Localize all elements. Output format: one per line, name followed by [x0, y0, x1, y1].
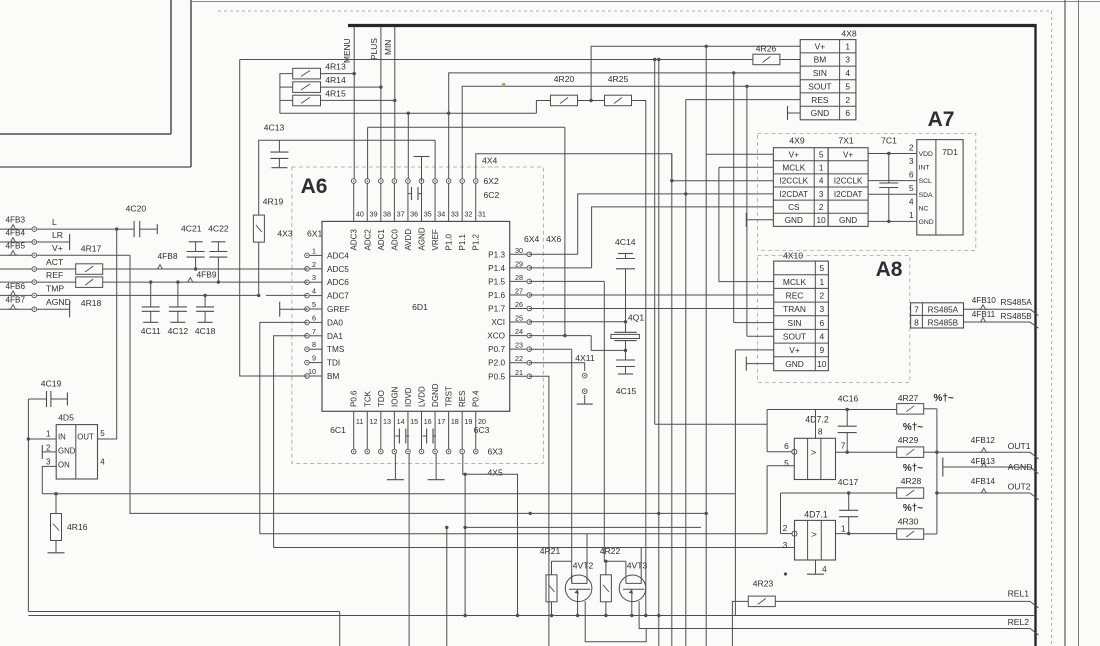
svg-text:AGND: AGND [1008, 462, 1033, 472]
4X10 row divider [774, 274, 829, 276]
wire: 4C20 right stub [140, 228, 158, 230]
svg-text:P0.7: P0.7 [488, 345, 505, 354]
svg-text:4: 4 [845, 68, 850, 78]
AGND riser tick [421, 157, 423, 182]
svg-text:4C12: 4C12 [168, 326, 189, 336]
wire: 4R21 bottom stem [551, 602, 553, 616]
open-end tick on GREF stub [279, 302, 281, 317]
open-end tick above 4C21 [189, 241, 203, 243]
svg-text:P1.4: P1.4 [488, 264, 505, 273]
svg-text:8: 8 [312, 340, 316, 349]
resistor 4R16 [51, 514, 62, 541]
wire: 4D5 pin 5 (OUT) up to L row [98, 229, 117, 439]
4X8 row divider 1 [800, 52, 856, 54]
junction: 4C17 / 4R28 row [847, 491, 850, 494]
svg-text:4C17: 4C17 [838, 477, 859, 487]
wire: 4R13 right to MENU [321, 73, 355, 75]
junction: output row / 4C17 [847, 532, 850, 535]
junction: riser 658.8 / bottom bus [657, 614, 660, 617]
junction: BM rail / riser 658.8 [657, 58, 660, 61]
svg-text:IOVD: IOVD [404, 387, 413, 407]
IC pin 39 (ADC2) top [366, 183, 368, 221]
wire: 4C13 top stem [278, 140, 280, 152]
open-end tick on 4X9 GND [745, 213, 747, 227]
4X9/7X1 row divider [773, 160, 868, 162]
wire: P1.5 row to riser [529, 280, 604, 282]
wire: 4R14 right to PLUS [321, 86, 381, 88]
junction: 4C11 / row [149, 280, 152, 283]
svg-text:4R27: 4R27 [898, 393, 919, 403]
IC pin 35 (AGND) top [421, 183, 423, 221]
wire: V+ row to corner [37, 254, 130, 256]
svg-text:26: 26 [515, 300, 523, 309]
junction: AVDD riser / rail [407, 112, 410, 115]
terminal pin, row LR [32, 240, 37, 245]
svg-text:LVDD: LVDD [418, 386, 427, 407]
resistor 4R20 [551, 95, 578, 106]
wire: 4R25 right then long down [632, 101, 646, 616]
IC pin 27 (P1.6) right [510, 294, 527, 296]
svg-text:ADC7: ADC7 [327, 292, 349, 301]
wire: gate lead into 4VT3 [625, 561, 627, 574]
svg-text:4D7.2: 4D7.2 [805, 415, 829, 425]
open-end tick below 4R16 [48, 552, 65, 554]
IC pin 38 (ADC1) top [380, 183, 382, 221]
thick module border right [1034, 24, 1036, 646]
junction: XCI row / crystal vertical [624, 320, 627, 323]
wire: PLUS line down to pin 38 [380, 27, 382, 179]
svg-text:4D7.1: 4D7.1 [804, 510, 828, 520]
svg-text:2: 2 [819, 203, 824, 212]
frame: inner corner of upper-left block (vertical) [170, 0, 172, 134]
wire: riser x=564.9 (ADC2 rail to XCO) [564, 127, 566, 335]
svg-text:12: 12 [369, 417, 377, 426]
svg-text:5: 5 [845, 82, 850, 92]
svg-text:DGND: DGND [431, 383, 440, 407]
inversion bubble 4D7.1 pin 2 [792, 531, 797, 536]
svg-text:DA1: DA1 [327, 332, 343, 341]
4X10 row divider [774, 328, 829, 330]
open-end tick below 4D7.1 pin 4 [807, 573, 824, 575]
wire: ACT row to 4R17 [37, 268, 76, 270]
wire: left input row V+ [0, 254, 32, 256]
crystal 4Q1 [614, 331, 636, 333]
IC pin 8 (TMS) left [309, 348, 322, 350]
wire: riser x=654.7 from BM rail to y=424.2 [654, 60, 656, 425]
wire: 4C11 top stem [150, 282, 152, 307]
wire: P0.5 (pin 21) right then down to sheet edge [529, 376, 549, 646]
svg-text:6X1: 6X1 [307, 229, 323, 239]
svg-text:%†~: %†~ [903, 463, 923, 474]
module A8 dashed boundary [758, 256, 910, 383]
svg-text:4C22: 4C22 [208, 224, 229, 234]
svg-text:2: 2 [819, 291, 824, 301]
terminal pin, row L [32, 227, 37, 232]
IC 6D1 body [322, 221, 510, 411]
wire: RS485B out to border [964, 322, 1039, 328]
svg-text:AGND: AGND [418, 227, 427, 250]
svg-text:GND: GND [919, 219, 934, 226]
svg-text:TCK: TCK [363, 390, 372, 407]
svg-text:4R14: 4R14 [325, 75, 346, 85]
svg-text:P0.5: P0.5 [488, 372, 505, 381]
svg-text:4FB8: 4FB8 [158, 251, 178, 261]
svg-text:BM: BM [814, 55, 827, 65]
wire: OUT2 row to border [937, 493, 1039, 500]
svg-text:7: 7 [841, 441, 846, 451]
resistor 4R26 [753, 54, 780, 64]
IC pin 28 (P1.5) right [510, 280, 527, 282]
svg-text:27: 27 [515, 286, 523, 295]
IC pin 33 (P1.0) top [448, 183, 450, 221]
wire: left input row ACT [0, 268, 32, 270]
IC pin 10 (BM) left [309, 375, 322, 377]
junction: 4X8 V+ row / riser 706 [705, 45, 708, 48]
junction: riser465 / bus 527.4 [463, 526, 466, 529]
wire: 4C22 top stem [217, 242, 219, 252]
svg-text:4X11: 4X11 [575, 353, 595, 363]
junction: BM rail / riser 654.7 [653, 58, 656, 61]
svg-text:4R25: 4R25 [608, 74, 629, 84]
wire: gate row to 4VT3 [604, 560, 626, 562]
wire: P1.3 row to riser [529, 253, 577, 255]
wire: left input row LR [0, 241, 32, 243]
svg-text:ADC1: ADC1 [377, 229, 386, 251]
svg-text:40: 40 [356, 210, 364, 219]
IC pin 15 (IOVD) bottom [407, 411, 409, 449]
svg-text:2: 2 [312, 260, 316, 269]
wire: AGND row stub [37, 308, 70, 310]
wire: BM (pin 10) left and up to BM rail [240, 60, 307, 377]
svg-text:SOUT: SOUT [808, 82, 831, 92]
svg-text:39: 39 [369, 210, 377, 219]
wire: 7X1 I2CDAT to 7D1 SDA [868, 193, 917, 195]
svg-text:TRST: TRST [445, 386, 454, 407]
wire: 4R13 left to common vertical [280, 74, 293, 114]
svg-text:OUT1: OUT1 [1008, 441, 1031, 451]
svg-text:4FB5: 4FB5 [6, 242, 26, 251]
svg-text:%†~: %†~ [903, 503, 923, 514]
svg-text:LR: LR [52, 230, 63, 240]
wire: AGND row to border [943, 467, 1039, 474]
svg-text:5: 5 [819, 263, 824, 273]
svg-text:XCO: XCO [487, 332, 505, 341]
svg-text:9: 9 [819, 345, 824, 355]
svg-text:MCLK: MCLK [782, 164, 805, 173]
junction: 4R21 / bottom bus [550, 614, 553, 617]
wire: riser x=671.8 (I2CCLK tap) down to sheet edge [671, 154, 673, 646]
wire: 4C19 right stub [51, 398, 68, 400]
bus wire: DA0 y=533.7 to 4D7.2 pin 5 riser [260, 533, 767, 535]
frame: outer corner of upper-left block (horizontal) [0, 166, 191, 168]
svg-text:23: 23 [515, 341, 523, 350]
svg-text:V+: V+ [789, 345, 800, 355]
wire: 4R15 right to MIN [321, 99, 395, 101]
svg-text:>: > [811, 448, 817, 459]
wire: bus 611.5 drop to sheet edge [339, 612, 341, 646]
wire: 4R27 right [923, 408, 937, 410]
junction: left vertical / 4D5 pin1 wire [27, 437, 30, 440]
wire: left input row TMP [0, 294, 32, 296]
svg-text:RS485B: RS485B [928, 318, 959, 327]
wire: 4R14 left to common vertical [280, 86, 293, 88]
wire: to 4C19 left plate [28, 398, 46, 400]
4X10 row divider [774, 301, 829, 303]
IC pin 4 (ADC7) left [309, 295, 322, 297]
junction: 4R14 / PLUS [379, 85, 382, 88]
4X10 row divider [774, 342, 829, 344]
IC pin 32 (P1.1) top [461, 183, 463, 221]
svg-text:16: 16 [424, 417, 432, 426]
svg-text:SIN: SIN [813, 68, 827, 78]
IC pin 40 (ADC3) top [353, 183, 355, 221]
junction: rail / 4C16 [846, 408, 849, 411]
IC pin 24 (XCO) right [510, 335, 527, 337]
svg-text:34: 34 [437, 210, 445, 219]
junction: SIN row / riser 733.7 [732, 71, 735, 74]
bus wire y=611.5 [28, 611, 339, 613]
junction: SOUT row / riser 746.9 [745, 85, 748, 88]
IC pin 11 (P0.6) bottom [353, 411, 355, 449]
svg-text:INT: INT [919, 165, 930, 172]
svg-text:P1.1: P1.1 [458, 233, 467, 250]
open-end tick right of 4C19 [66, 393, 68, 406]
svg-text:4VT3: 4VT3 [627, 561, 648, 571]
wire: 4D7.2 pin 7 output to 4R29 [836, 451, 898, 453]
IC pin 14 (IOGN) bottom [393, 411, 395, 449]
wire: 4C18 bottom stem [204, 311, 206, 322]
capacitor between IOGN and IOVD [398, 429, 400, 444]
wire: 4C17 top stem [848, 493, 850, 510]
capacitor 4C18 [196, 306, 214, 308]
svg-text:TMP: TMP [46, 283, 64, 293]
svg-text:7X1: 7X1 [838, 135, 854, 145]
RS485 terminal block [911, 303, 964, 328]
wire: TMP row continues to chip pin 4 (ADC7) [266, 294, 307, 296]
svg-text:A7: A7 [928, 108, 955, 131]
terminal pin, row REF [32, 280, 37, 285]
capacitor 4C14 [616, 258, 635, 260]
wire: REL1 row to border [775, 601, 1038, 608]
svg-text:REF: REF [46, 270, 63, 280]
svg-text:GND: GND [58, 446, 76, 455]
junction: bus 493.7 / 4R16 [54, 492, 57, 495]
wire: 4R16 top stem [55, 494, 57, 514]
svg-text:3: 3 [783, 540, 788, 550]
svg-text:4: 4 [819, 331, 824, 341]
wire: 4X10 GND stub [746, 363, 773, 365]
svg-text:29: 29 [515, 259, 523, 268]
svg-text:ADC3: ADC3 [350, 229, 359, 251]
svg-text:25: 25 [515, 314, 523, 323]
wire: GREF (pin 5) stub [280, 308, 307, 310]
svg-text:ACT: ACT [46, 257, 64, 267]
svg-text:REC: REC [786, 291, 804, 301]
svg-text:22: 22 [515, 354, 523, 363]
wire: SOUT riser x=746.9 down to 4X10 SOUT [746, 86, 748, 336]
wire: 4X9 MCLK row [719, 166, 774, 168]
capacitor 4C13 [270, 151, 288, 153]
dashed sheet border right [1051, 11, 1053, 646]
svg-text:24: 24 [515, 327, 523, 336]
wire: 4C12 top stem [177, 282, 179, 307]
IC pin 22 (P2.0) right [510, 362, 527, 364]
ferrite bead 4FB11 [978, 318, 988, 323]
IC pin 30 (P1.3) right [510, 253, 527, 255]
wire: V+ riser up to 4X8 V+ row [591, 46, 800, 100]
svg-text:TDI: TDI [327, 359, 340, 368]
svg-text:4: 4 [822, 564, 827, 574]
wire: L row to 4C20 [37, 228, 134, 230]
wire: 4D7.2 pin 5 [767, 465, 794, 467]
wire: 4X8 GND stub [788, 112, 801, 114]
svg-text:BM: BM [327, 372, 339, 381]
connector 4X11 pin 1 [582, 373, 587, 378]
ferrite bead 4FB7 on row AGND [8, 305, 18, 310]
IC pin 20 (P0.4) bottom [475, 411, 477, 449]
frame: outer corner of upper-left block (vertical) [190, 0, 192, 167]
IC pin 13 (TDO) bottom [380, 411, 382, 449]
wire: V+ riser x=706 down [705, 46, 707, 646]
capacitor 4C11 [142, 306, 160, 308]
svg-text:ON: ON [58, 460, 70, 469]
svg-text:36: 36 [410, 210, 418, 219]
wire: 4C11 bottom stem [150, 311, 152, 322]
svg-text:OUT2: OUT2 [1008, 482, 1031, 492]
ground symbol below pin 14 (IOGND) [394, 454, 396, 480]
junction: 7C1 / GND row [887, 220, 890, 223]
svg-text:3: 3 [909, 157, 914, 166]
IC pin 19 (RES) bottom [461, 411, 463, 449]
junction: riser 446.8 / bus 527.4 [445, 526, 448, 529]
ferrite bead 4FB4 on row LR [8, 238, 18, 243]
IC pin 16 (LVDD) bottom [421, 411, 423, 449]
svg-text:4FB9: 4FB9 [197, 270, 217, 280]
svg-text:2: 2 [845, 95, 850, 105]
wire: REF row to 4R18 [37, 281, 76, 283]
svg-text:4R26: 4R26 [756, 44, 777, 54]
svg-text:4R22: 4R22 [600, 546, 621, 556]
4X9/7X1 row divider [773, 199, 868, 201]
svg-text:6C1: 6C1 [330, 425, 346, 435]
svg-text:4FB3: 4FB3 [6, 216, 26, 225]
capacitor 4C20 [133, 221, 135, 237]
wire: OUT1 row to border [937, 452, 1039, 459]
ferrite bead 4FB12 [979, 448, 989, 453]
svg-text:RS485A: RS485A [928, 306, 959, 315]
IC pin 3 (ADC6) left [309, 281, 322, 283]
wire: DA1 (pin 7) left and down [274, 336, 307, 548]
svg-text:4R23: 4R23 [753, 579, 774, 589]
bus wire: BM rail y=59.5 to 4R26 [240, 59, 753, 61]
wire: cap stub pin16 [423, 435, 427, 437]
IC pin 23 (P0.7) right [510, 348, 527, 350]
wire: 4R29 right [923, 451, 937, 453]
svg-text:A6: A6 [301, 175, 328, 198]
svg-text:REL2: REL2 [1008, 617, 1030, 627]
open-end tick below 4C15 [618, 373, 633, 375]
svg-text:5: 5 [312, 300, 316, 309]
wire: ADC2 (pin 39) riser [367, 127, 369, 178]
wire: V+ riser x=735.4 down [734, 350, 736, 616]
wire: 4VT3 lower terminal to REL2 border [639, 601, 1038, 635]
svg-text:GREF: GREF [327, 305, 350, 314]
op-amp 4D7.2 body [794, 438, 835, 479]
svg-text:MIN: MIN [383, 40, 393, 55]
junction: 4C18 / row [203, 294, 206, 297]
wire: 4C18 top stem [204, 295, 206, 307]
svg-text:1: 1 [46, 430, 51, 439]
svg-text:ADC5: ADC5 [327, 265, 349, 274]
svg-text:I2CCLK: I2CCLK [834, 177, 863, 186]
wire: RS485A out to border [964, 309, 1039, 315]
svg-text:6C2: 6C2 [484, 190, 500, 200]
junction: I2CCLK path / riser 671.8 [670, 179, 673, 182]
wire: DA0 (pin 6) left and down [260, 322, 307, 533]
svg-text:TMS: TMS [327, 345, 345, 354]
capacitor 4C17 [839, 509, 858, 511]
wire: 4VT3 drain riser to DA1 bus [640, 548, 642, 576]
svg-text:SDA: SDA [919, 192, 933, 199]
svg-text:6X2: 6X2 [484, 176, 500, 186]
IC 7D1 body [917, 140, 963, 235]
svg-text:P0.4: P0.4 [472, 390, 481, 407]
wire: 4R19/4C13 net (VREF node) vertical [259, 140, 280, 215]
svg-text:5: 5 [784, 458, 789, 468]
4X8 row divider 2 [800, 65, 856, 67]
wire: 6C2 left stub [408, 193, 412, 195]
svg-text:IN: IN [58, 432, 66, 441]
junction: I2CDAT row / riser 685.8 [684, 192, 687, 195]
svg-text:4X9: 4X9 [789, 135, 805, 145]
terminal pin, row TMP [32, 293, 37, 298]
wire: VREF (pin 34) riser [434, 140, 436, 178]
junction2: bus 513.4 dot [657, 512, 660, 515]
open-end tick right of 4C20 [156, 224, 158, 234]
open-end tick on 4X10 GND [745, 357, 747, 371]
wire: 4R26 to 4X8 BM row [780, 59, 800, 61]
IC pin 18 (TRST) bottom [448, 411, 450, 449]
svg-text:21: 21 [515, 368, 523, 377]
svg-text:L: L [52, 217, 57, 227]
svg-text:6: 6 [845, 108, 850, 118]
stray mark dot [784, 572, 787, 575]
junction: 4VT3 source / bus [630, 614, 633, 617]
svg-text:10: 10 [308, 367, 316, 376]
wire: P1.7 row to 4X10 TRAN [529, 308, 773, 310]
svg-text:%†~: %†~ [903, 422, 923, 433]
wire: 4VT2 lower terminal step to REL2 line [585, 601, 646, 641]
bottom bus y=615.5 [28, 615, 1035, 617]
wire: 4D7.2 pin 8 stem [815, 410, 817, 439]
svg-text:6X3: 6X3 [488, 447, 504, 457]
wire: 4C14 to crystal top [625, 269, 627, 333]
IC pin 26 (P1.7) right [510, 308, 527, 310]
wire: riser x=571.7 down to 4VT2 gate [571, 349, 573, 583]
svg-text:4C13: 4C13 [264, 123, 285, 133]
svg-text:P1.0: P1.0 [445, 233, 454, 250]
junction: OUT2 row / vertical [935, 491, 938, 494]
ferrite bead 4FB3 on row L [8, 225, 18, 230]
voltage regulator 4D5 body [56, 425, 97, 479]
wire: cap stub pin15 [406, 435, 409, 437]
svg-text:10: 10 [817, 216, 827, 225]
svg-text:MCLK: MCLK [783, 277, 807, 287]
wire: 4D7.2 pin 6 [767, 451, 792, 453]
svg-text:SCL: SCL [919, 178, 932, 185]
svg-text:RES: RES [458, 391, 467, 407]
svg-text:4FB7: 4FB7 [6, 296, 26, 305]
